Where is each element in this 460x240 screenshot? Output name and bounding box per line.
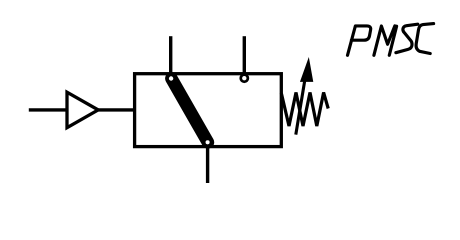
arrow shaft — [296, 79, 305, 135]
amplifier triangle — [67, 92, 98, 128]
label PMSC — [348, 24, 434, 56]
letter M — [374, 26, 397, 55]
letter S — [396, 24, 418, 53]
wire input left — [29, 108, 67, 111]
letter C — [416, 24, 434, 54]
contact circle bottom — [204, 139, 211, 146]
wire triangle to box — [98, 108, 135, 111]
wire top-left port — [169, 36, 172, 73]
switch bar — [171, 79, 208, 143]
wire top-right port — [243, 36, 246, 73]
contact circle top-left — [168, 75, 175, 82]
arrow head — [301, 59, 313, 82]
resistor zigzag — [281, 93, 328, 127]
letter P — [348, 26, 371, 55]
wire bottom port — [206, 147, 209, 183]
box body — [135, 74, 282, 147]
contact circle top-right — [241, 75, 248, 82]
